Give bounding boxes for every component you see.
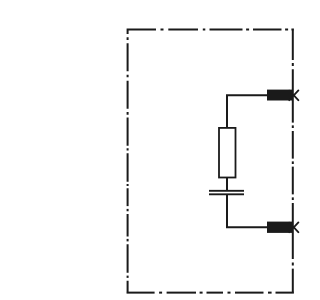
terminal X2 cross mark <box>289 222 298 232</box>
boundary right edge <box>292 29 294 294</box>
terminal X2 (bottom, filled block) <box>267 222 292 233</box>
enclosure boundary (dash-dot frame) <box>127 29 294 294</box>
terminal X1 (top, filled block) <box>267 90 292 101</box>
boundary top edge <box>127 29 294 31</box>
capacitor C1 (plates) <box>209 191 244 195</box>
boundary bottom edge <box>127 292 294 294</box>
wire: resistor bottom to capacitor <box>226 178 228 191</box>
terminal X1 cross mark <box>289 90 298 100</box>
wire: top terminal to resistor top <box>227 95 267 128</box>
resistor R1 <box>219 128 236 178</box>
wire: capacitor to bottom terminal <box>227 195 267 228</box>
boundary left edge <box>127 29 129 294</box>
